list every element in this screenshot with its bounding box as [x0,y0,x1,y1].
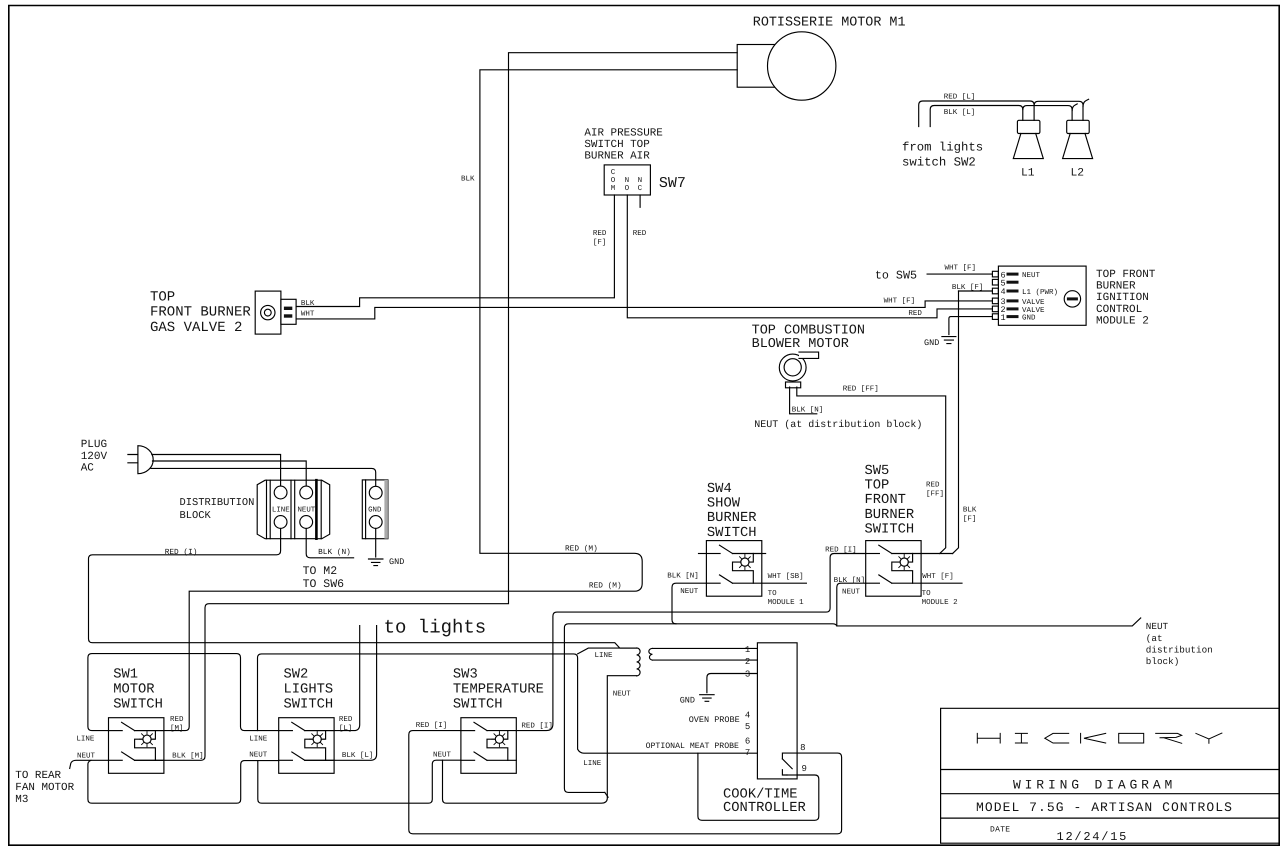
svg-text:SW1: SW1 [113,667,138,682]
svg-text:WHT [SB]: WHT [SB] [768,572,804,581]
svg-text:120V: 120V [81,451,108,463]
svg-text:AIR PRESSURE: AIR PRESSURE [584,127,662,139]
svg-text:NEUT: NEUT [613,691,632,699]
svg-text:BLOCK: BLOCK [180,510,212,522]
svg-text:SW4: SW4 [707,482,732,497]
svg-text:WHT [F]: WHT [F] [945,264,977,273]
svg-text:SW5: SW5 [865,464,890,479]
svg-text:to SW5: to SW5 [875,269,917,283]
svg-text:GAS VALVE 2: GAS VALVE 2 [150,320,242,336]
svg-text:to lights: to lights [384,616,487,638]
svg-text:RED [L]: RED [L] [944,92,976,101]
svg-text:FAN MOTOR: FAN MOTOR [15,782,74,794]
svg-text:MODULE 2: MODULE 2 [922,598,958,607]
svg-text:BLK [L]: BLK [L] [342,751,374,760]
svg-text:LINE: LINE [76,736,95,744]
svg-text:NEUT: NEUT [680,588,699,596]
svg-text:ROTISSERIE MOTOR M1: ROTISSERIE MOTOR M1 [753,16,906,31]
svg-text:SW2: SW2 [284,667,309,682]
svg-text:NEUT: NEUT [1146,621,1169,632]
svg-text:O: O [625,184,630,193]
svg-text:[F]: [F] [963,515,977,524]
svg-text:O: O [611,176,616,185]
svg-text:SW7: SW7 [659,175,686,192]
svg-text:RED (M): RED (M) [589,581,622,590]
svg-text:GND: GND [1022,314,1036,323]
svg-text:LINE: LINE [272,507,290,515]
svg-text:BURNER: BURNER [1096,281,1136,293]
svg-text:CONTROL: CONTROL [1096,304,1142,316]
svg-text:WHT [F]: WHT [F] [884,297,916,306]
svg-text:4: 4 [1001,287,1006,297]
svg-text:TO M2: TO M2 [303,565,338,578]
svg-text:OPTIONAL MEAT PROBE: OPTIONAL MEAT PROBE [646,742,739,751]
svg-text:BLK [M]: BLK [M] [172,751,204,760]
svg-text:BLK: BLK [461,176,475,184]
svg-text:5: 5 [745,722,750,732]
svg-text:WHT [F]: WHT [F] [922,572,954,581]
svg-text:from lights: from lights [902,141,983,155]
svg-text:WHT: WHT [301,311,315,319]
svg-text:7: 7 [745,748,750,758]
svg-text:FRONT: FRONT [865,493,906,508]
svg-text:[FF]: [FF] [926,490,944,499]
svg-text:L1: L1 [1021,167,1035,179]
svg-text:DISTRIBUTION: DISTRIBUTION [180,497,255,509]
svg-text:RED: RED [339,716,353,724]
svg-text:RED (I): RED (I) [165,548,198,557]
svg-text:OVEN PROBE: OVEN PROBE [689,715,740,725]
svg-text:BURNER: BURNER [707,511,757,526]
svg-text:TO REAR: TO REAR [15,770,61,782]
svg-text:SWITCH: SWITCH [284,697,334,712]
svg-text:PLUG: PLUG [81,439,107,451]
svg-text:BLK: BLK [963,507,977,515]
svg-text:AC: AC [81,463,95,475]
svg-text:DATE: DATE [990,826,1010,835]
svg-text:GND: GND [368,507,382,515]
svg-text:RED: RED [593,230,607,238]
svg-text:C: C [638,184,643,193]
svg-text:2: 2 [745,657,750,667]
svg-text:TO: TO [922,589,932,598]
svg-text:[F]: [F] [593,238,607,247]
svg-text:BLK [L]: BLK [L] [944,108,976,117]
svg-text:1: 1 [745,645,750,655]
svg-text:NEUT: NEUT [1022,272,1041,280]
svg-text:TO: TO [768,589,778,598]
svg-text:MODEL 7.5G - ARTISAN CONTROLS: MODEL 7.5G - ARTISAN CONTROLS [976,800,1233,815]
svg-text:switch SW2: switch SW2 [902,155,976,169]
svg-text:9: 9 [802,764,807,774]
svg-text:MOTOR: MOTOR [113,682,154,697]
svg-text:distribution: distribution [1146,645,1213,656]
svg-text:CONTROLLER: CONTROLLER [723,801,806,816]
svg-text:BURNER AIR: BURNER AIR [584,150,650,162]
svg-text:RED (M): RED (M) [565,545,598,554]
svg-text:BLK [N]: BLK [N] [667,571,699,580]
svg-text:BLOWER MOTOR: BLOWER MOTOR [752,337,849,352]
svg-text:BURNER: BURNER [865,508,915,523]
svg-text:SW3: SW3 [453,667,478,682]
svg-text:M3: M3 [15,794,28,806]
svg-text:L1 (PWR): L1 (PWR) [1022,288,1058,297]
svg-text:NEUT: NEUT [842,589,861,597]
svg-text:RED: RED [926,482,940,490]
svg-text:WIRING DIAGRAM: WIRING DIAGRAM [1013,778,1176,793]
svg-text:BLK [N]: BLK [N] [834,576,866,585]
svg-text:RED [I]: RED [I] [825,546,857,555]
svg-text:BLK (N): BLK (N) [318,548,351,557]
svg-text:BLK: BLK [301,300,315,308]
svg-text:NEUT: NEUT [433,751,452,759]
svg-text:SWITCH: SWITCH [707,526,757,541]
svg-text:3: 3 [745,670,750,680]
svg-text:N: N [638,177,643,185]
svg-text:L2: L2 [1071,167,1085,179]
svg-text:4: 4 [745,711,750,721]
svg-text:SWITCH TOP: SWITCH TOP [584,139,649,151]
svg-text:MODULE 2: MODULE 2 [1096,315,1149,327]
svg-text:block): block) [1146,656,1179,667]
svg-text:NEUT: NEUT [77,752,96,760]
svg-text:LINE: LINE [583,760,602,768]
svg-text:RED: RED [633,230,647,238]
svg-text:1: 1 [1001,313,1006,323]
svg-text:8: 8 [800,743,805,753]
svg-text:12/24/15: 12/24/15 [1057,830,1129,844]
svg-text:TOP FRONT: TOP FRONT [1096,269,1156,281]
svg-text:(at: (at [1146,633,1163,644]
svg-text:NEUT: NEUT [249,752,268,760]
svg-text:SWITCH: SWITCH [113,697,163,712]
svg-text:[L]: [L] [339,724,353,733]
svg-text:LIGHTS: LIGHTS [284,682,334,697]
svg-text:FRONT BURNER: FRONT BURNER [150,305,251,321]
svg-text:SWITCH: SWITCH [865,522,915,537]
svg-text:TOP: TOP [865,479,890,494]
svg-text:TO SW6: TO SW6 [303,578,345,591]
svg-text:GND: GND [924,338,939,348]
svg-text:VALVE: VALVE [1022,299,1045,307]
svg-text:BLK [N]: BLK [N] [792,405,824,414]
svg-text:RED [I]: RED [I] [521,722,553,731]
svg-text:RED [FF]: RED [FF] [843,385,879,394]
svg-text:RED: RED [908,310,922,318]
svg-text:GND: GND [680,696,695,706]
svg-text:[M]: [M] [170,724,184,733]
svg-text:M: M [611,185,616,193]
svg-text:GND: GND [389,557,404,567]
svg-text:LINE: LINE [595,652,614,660]
svg-text:TEMPERATURE: TEMPERATURE [453,682,544,697]
svg-text:NEUT: NEUT [298,507,316,515]
svg-text:6: 6 [745,737,750,747]
svg-text:BLK [F]: BLK [F] [952,283,984,292]
svg-text:NEUT (at distribution block): NEUT (at distribution block) [754,419,922,431]
svg-text:N: N [625,177,630,185]
svg-text:SHOW: SHOW [707,497,741,512]
svg-text:MODULE 1: MODULE 1 [768,598,805,607]
svg-text:RED [I]: RED [I] [416,721,448,730]
svg-text:LINE: LINE [249,736,268,744]
svg-text:SWITCH: SWITCH [453,697,503,712]
svg-text:TOP: TOP [150,289,175,305]
svg-text:C: C [611,168,616,177]
svg-text:IGNITION: IGNITION [1096,292,1149,304]
svg-text:RED: RED [170,716,184,724]
